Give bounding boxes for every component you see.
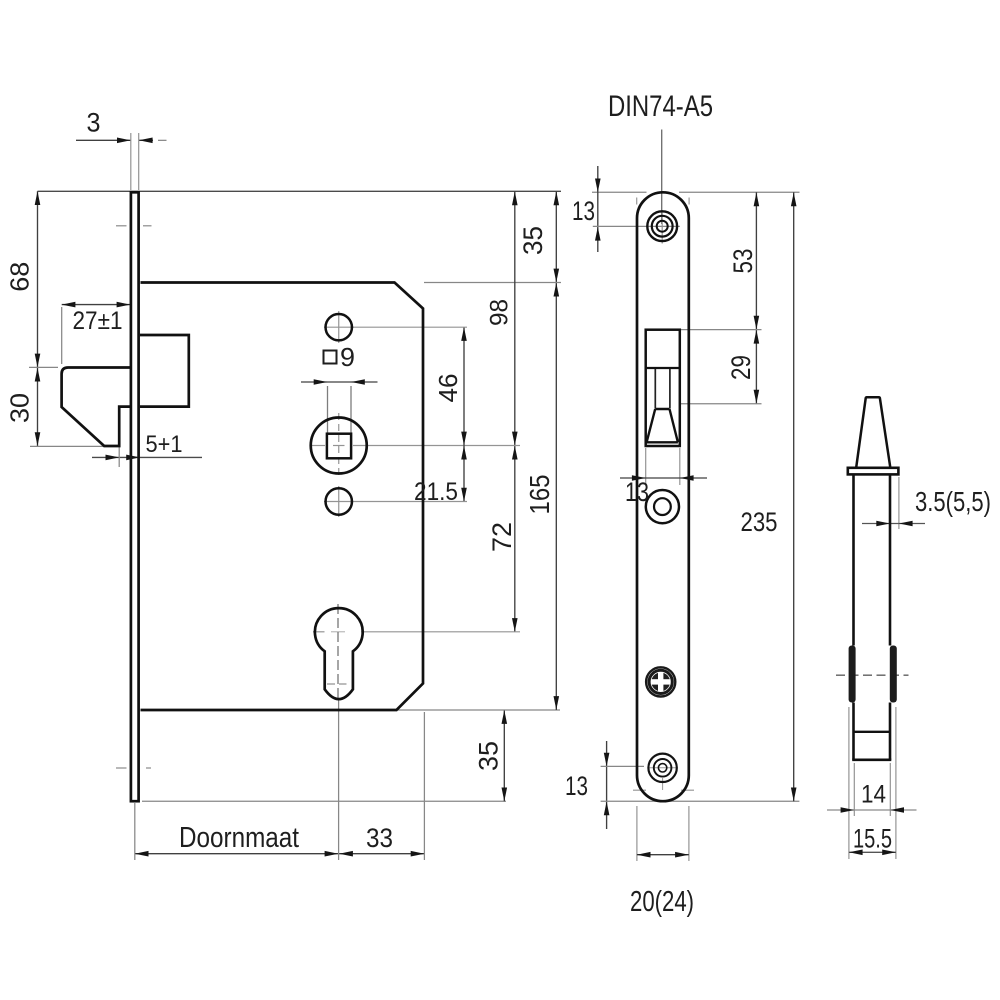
extension cutout sides down (645, 448, 647, 485)
arrow 235 top (791, 193, 797, 207)
extension line at bolt top (29, 366, 58, 368)
arrow 21.5 up (461, 446, 467, 460)
extension top screw horizontal (353, 326, 468, 328)
arrow 13top lower (595, 227, 601, 241)
centerline cylinder vertical dashed (337, 604, 339, 699)
bolt body sides (852, 475, 855, 645)
extension top screw centerline (593, 225, 680, 227)
arrow 30 bottom (35, 432, 41, 446)
svg-text:13: 13 (572, 196, 595, 226)
bottom fixing screw (648, 754, 676, 782)
extension 53 bottom / cutout top (681, 329, 762, 331)
extension line for 27±1 (61, 307, 63, 364)
svg-text:13: 13 (625, 477, 649, 507)
svg-text:33: 33 (366, 823, 393, 853)
texts right view (853, 486, 991, 854)
arrow 68 top (35, 191, 41, 205)
centerline ticks upper screw level (116, 225, 127, 227)
arrow 13cut right (680, 475, 694, 481)
latch cutout (646, 330, 680, 446)
svg-text:98: 98 (486, 299, 514, 326)
svg-text:53: 53 (728, 249, 758, 274)
arrow 3.5 right (899, 521, 913, 527)
svg-text:29: 29 (726, 355, 756, 380)
dim line 98/72 (514, 191, 516, 632)
svg-text:27±1: 27±1 (73, 307, 123, 335)
dim line 35 bottom (503, 710, 505, 801)
extension spring bars down (848, 707, 850, 859)
latch bolt tail (140, 335, 189, 407)
svg-text:30: 30 (5, 393, 35, 423)
arrow 33 right (411, 851, 425, 857)
dim line 3.5 (862, 523, 925, 525)
arrow 13bot upper (604, 753, 610, 767)
dashed centerline bolt (836, 674, 909, 676)
latch guide lines (654, 369, 656, 409)
svg-text:Doornmaat: Doornmaat (179, 822, 299, 854)
top fixing screw (647, 211, 677, 241)
extension case bottom right (398, 709, 560, 711)
dim line 46/21.5 (463, 327, 465, 501)
svg-text:13: 13 (565, 771, 588, 801)
arrow 13bot lower (604, 802, 610, 816)
arrow 53 top (754, 193, 760, 207)
extension 29 bottom (681, 403, 762, 405)
arrow sq9 right (351, 379, 365, 385)
centerline spindle vertical dashed (338, 413, 340, 478)
arrow 20 right (675, 852, 689, 858)
arrows left view (35, 138, 559, 857)
faceplate edge extensions above (130, 133, 132, 190)
dim line 13 bottom (606, 741, 608, 829)
extension flange right down (898, 477, 900, 529)
arrow 15.5 left (849, 850, 863, 856)
arrow 68 bottom (35, 354, 41, 368)
dim line 20(24) (637, 854, 689, 856)
arrow 21.5 down (461, 488, 467, 502)
arrow 27 left (62, 302, 76, 308)
arrow 53 bottom (754, 316, 760, 330)
svg-text:3: 3 (87, 108, 101, 138)
arrows right view (841, 521, 913, 855)
screw hole below cutout (646, 490, 679, 523)
spring clip left (849, 646, 856, 703)
svg-text:3.5(5,5): 3.5(5,5) (915, 486, 991, 517)
arrow 14 left (841, 807, 855, 813)
top screw vertical tick (661, 210, 663, 244)
faceplate front outline (637, 192, 689, 801)
dim line 35top/165 (555, 191, 557, 710)
extension line at bolt bottom (30, 445, 103, 447)
svg-text:21.5: 21.5 (414, 478, 458, 506)
extension line top reference y191 (38, 190, 562, 192)
arrow 35bot up (502, 710, 508, 724)
arrow 46 down (461, 432, 467, 446)
lock case outline (141, 283, 424, 711)
svg-text:46: 46 (433, 374, 463, 403)
arrow 29 bottom (754, 390, 760, 404)
case screw hole bottom (326, 488, 352, 514)
arrow 72 up (512, 446, 518, 460)
dim line 68/30 vertical (37, 191, 39, 446)
arrow 20 left (637, 852, 651, 858)
svg-text:DIN74-A5: DIN74-A5 (608, 90, 713, 123)
extension lower screw horizontal (353, 501, 468, 503)
dim line Doornmaat / 33 (135, 853, 425, 855)
arrow 3 left (117, 138, 131, 144)
latch bolt tip cone (856, 397, 890, 467)
spring clip right (890, 646, 897, 703)
arrow 165 up (554, 283, 560, 297)
svg-text:68: 68 (5, 262, 35, 292)
dim line square 9 (301, 381, 378, 383)
spindle square hole 9mm (327, 434, 351, 459)
arrow 235 bottom (791, 788, 797, 802)
extension spindle center horizontal (353, 445, 520, 447)
extension body sides down (853, 763, 855, 816)
arrow 13top upper (595, 179, 601, 193)
arrow 5+1 a (106, 455, 120, 461)
arrow 46 up (461, 327, 467, 341)
arrow 35bot down (502, 788, 508, 802)
label square9 symbol (324, 351, 337, 364)
bolt bottom edge (852, 758, 891, 761)
latch bolt head (62, 368, 131, 447)
centerline ticks lower screw level (116, 767, 127, 769)
dim line 235 (793, 192, 795, 801)
arrow 30 top (35, 368, 41, 382)
arrow 35top down (554, 269, 560, 283)
arrow doornmaat left (135, 851, 149, 857)
extension plate sides down (636, 806, 638, 861)
bolt body lower sides (852, 703, 855, 760)
dim line 53/29 (755, 192, 757, 403)
svg-text:35: 35 (474, 741, 504, 771)
leader line DIN74-A5 (661, 130, 663, 225)
arrow 3 right (139, 138, 153, 144)
arrow 14 right (890, 807, 904, 813)
dim 3 faceplate thickness lines (76, 139, 131, 141)
faceplate edge-on flange (848, 468, 899, 475)
dim line 15.5 (849, 851, 896, 853)
tangent ticks plate bottom (633, 789, 646, 791)
extension of latch notch (118, 447, 120, 467)
case screw hole top (326, 314, 352, 340)
dim line 13 top (597, 166, 599, 252)
arrow 5+1 b (126, 455, 140, 461)
svg-text:9: 9 (340, 342, 355, 372)
spindle hub circle (311, 418, 367, 474)
extension case top right (424, 282, 561, 284)
extension bottom screw centerline (601, 765, 644, 767)
extension faceplate bottom line (142, 800, 506, 802)
arrow doornmaat right (325, 851, 339, 857)
arrow 35top up (554, 192, 560, 206)
centerline screws vertical ticks (338, 311, 340, 343)
extension spindle axis down (338, 699, 340, 860)
tangent ticks plate top (636, 198, 638, 205)
faceplate side view (131, 192, 139, 801)
svg-text:5+1: 5+1 (146, 431, 183, 458)
extension cylinder center horizontal (361, 631, 520, 633)
svg-text:20(24): 20(24) (630, 886, 694, 918)
extension plate top level (592, 191, 647, 193)
svg-text:165: 165 (524, 475, 555, 515)
arrow 13cut left (632, 475, 646, 481)
arrow 29 top (754, 330, 760, 344)
dim line 13 cutout (620, 477, 707, 479)
arrow 3.5 left (876, 521, 890, 527)
extension plate bottom level (601, 800, 800, 802)
svg-text:14: 14 (861, 781, 886, 809)
dim 27±1 line (62, 304, 131, 306)
extension square sides (327, 386, 329, 434)
svg-text:72: 72 (487, 522, 517, 552)
arrow 98 down (512, 432, 518, 446)
extension case right down (423, 712, 425, 860)
dim 5+1 line (92, 456, 202, 458)
arrow 27 right (117, 302, 131, 308)
svg-text:15.5: 15.5 (853, 824, 892, 854)
arrow 33 left (339, 851, 353, 857)
bolt joint line (854, 731, 891, 733)
phillips screw (646, 667, 675, 696)
svg-text:235: 235 (741, 507, 778, 537)
svg-text:35: 35 (518, 226, 548, 255)
arrow 165 down (554, 696, 560, 710)
extension faceplate bottom left (134, 803, 136, 860)
arrow 72 down (512, 618, 518, 632)
arrow 15.5 right (882, 850, 896, 856)
dim line 14 (827, 809, 917, 811)
arrows middle view (595, 179, 797, 858)
arrow 98 up (512, 192, 518, 206)
latch bevel trapezoid (647, 409, 678, 442)
bottom screw vertical tick (662, 778, 664, 790)
texts middle view (565, 90, 778, 918)
arrow sq9 left (314, 379, 328, 385)
texts left view (5, 108, 555, 855)
euro profile cylinder hole (315, 608, 363, 699)
latch cutout inner line (646, 367, 680, 369)
